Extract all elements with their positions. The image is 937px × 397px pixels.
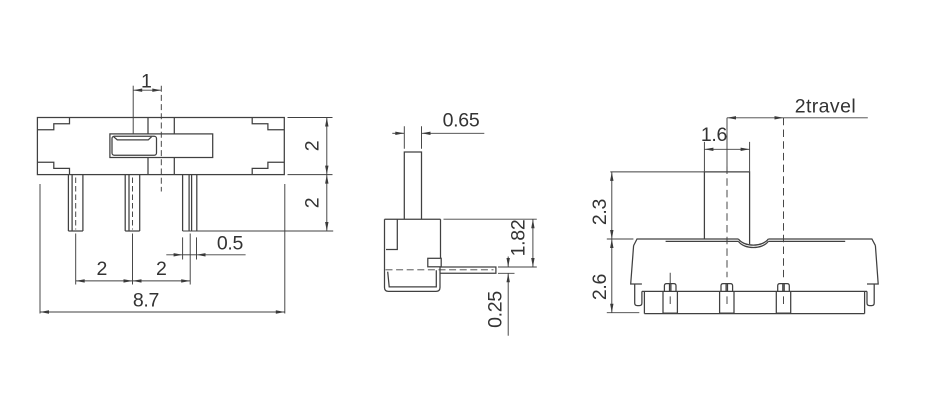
- svg-text:0.5: 0.5: [217, 233, 244, 255]
- svg-text:8.7: 8.7: [133, 290, 159, 312]
- svg-text:0.65: 0.65: [443, 109, 480, 131]
- dim 1 extension line: [132, 86, 134, 134]
- leg pitch extension lines: [76, 234, 191, 285]
- side centerline (dashed): [386, 269, 494, 271]
- top cover outer line left: [634, 239, 739, 246]
- cover dip lower arc: [738, 241, 768, 247]
- dim 0.5 arrows and line: [166, 254, 182, 256]
- side body outline: [385, 219, 441, 291]
- dim 2travel tail: [784, 117, 868, 119]
- svg-text:1: 1: [141, 71, 152, 93]
- leg 2 centerline: [132, 178, 134, 230]
- dim 0.65 extension lines: [404, 126, 421, 149]
- body right edge upper: [440, 219, 442, 258]
- terminal leg 1: [68, 175, 83, 231]
- tab 1 centerline marks: [669, 273, 671, 304]
- left ear: [635, 284, 642, 306]
- dim 2.6 line: [611, 239, 613, 313]
- dim 1.82 line: [532, 219, 534, 267]
- dim 1.82 extension top: [444, 218, 537, 220]
- dim 2.3 line: [611, 172, 613, 239]
- svg-text:0.25: 0.25: [485, 291, 507, 328]
- switch body outline: [37, 118, 284, 175]
- dim 1.82 extension pin top: [498, 266, 537, 268]
- dim 2.3/2.6 extension mid: [607, 238, 634, 240]
- terminal pin: [440, 267, 496, 273]
- left body side: [631, 246, 642, 284]
- cover dip upper arc: [738, 239, 768, 245]
- dim 2 (body height) line: [326, 118, 328, 175]
- svg-text:2: 2: [302, 198, 324, 209]
- dim 1 line: [133, 89, 161, 91]
- stem: [404, 152, 421, 219]
- dim 1.6 line: [704, 148, 749, 150]
- svg-text:2: 2: [97, 258, 108, 280]
- leg 1 centerline: [75, 178, 77, 230]
- dim 2 (leg length) line: [326, 175, 328, 231]
- svg-text:2.6: 2.6: [589, 274, 611, 300]
- svg-text:2: 2: [302, 141, 324, 152]
- corner step top-right: [252, 118, 284, 130]
- stem centerline solid upper: [726, 118, 728, 172]
- corner step bottom-left: [37, 162, 69, 174]
- dim 8.7 extension lines: [40, 184, 285, 314]
- cover edge line above window b: [173, 118, 175, 134]
- terminal leg 3: [183, 175, 197, 231]
- dim 1.6 extension lines: [704, 142, 749, 172]
- right body side: [867, 246, 878, 284]
- dim 0.5 extension lines: [183, 237, 197, 259]
- top cover inner line left: [666, 240, 739, 242]
- inner tray bottom: [388, 270, 437, 287]
- tab 1 body: [663, 291, 677, 313]
- dim 2 (pitch a) line: [76, 280, 133, 282]
- dim 2travel line: [727, 117, 784, 119]
- cover edge line below window a: [147, 158, 149, 175]
- travel centerline dash in tab 3: [783, 296, 785, 304]
- terminal exit block: [428, 258, 441, 267]
- dim 8.7 line: [40, 311, 285, 313]
- tab 3 body: [776, 291, 790, 313]
- slider window: [110, 134, 213, 158]
- svg-text:2: 2: [156, 258, 167, 280]
- dim 0.25 arrows: [507, 257, 509, 268]
- right side dim extension mid: [288, 174, 333, 176]
- svg-text:2travel: 2travel: [795, 96, 856, 118]
- dim 2.6 extension bottom: [607, 312, 640, 314]
- travel position centerline dashed: [783, 118, 785, 277]
- stem centerline dash in tab 2: [726, 296, 728, 304]
- dim 2 (pitch b) line: [133, 280, 191, 282]
- corner step top-left: [37, 118, 69, 130]
- svg-text:2.3: 2.3: [589, 199, 611, 225]
- inner step top-left: [386, 219, 397, 249]
- svg-text:1.82: 1.82: [508, 220, 530, 257]
- dim 2.3 extension top: [610, 171, 704, 173]
- leg 3 bottom line extended right: [183, 230, 334, 232]
- dim 0.25 extension pin bottom: [498, 272, 515, 274]
- terminal leg 2: [125, 175, 140, 231]
- stem: [704, 172, 749, 244]
- top cover inner line right: [768, 240, 845, 242]
- tab 2 head: [721, 284, 733, 292]
- knob cap outline: [112, 136, 157, 155]
- knob scoop groove: [114, 137, 152, 140]
- cover edge line below window b: [173, 158, 175, 175]
- right side dim extension top: [288, 117, 333, 119]
- svg-text:1.6: 1.6: [701, 124, 727, 146]
- cover edge line above window a: [147, 118, 149, 134]
- right ear: [867, 284, 874, 306]
- stem centerline dashed: [726, 167, 728, 278]
- tab 3 head: [778, 284, 790, 292]
- base block: [642, 291, 867, 313]
- dim 0.65 arrows: [392, 132, 404, 134]
- corner step bottom-right: [252, 162, 284, 174]
- tab 2 body: [720, 291, 734, 313]
- main centerline (dashed): [160, 86, 162, 192]
- top cover outer line right: [768, 239, 875, 246]
- tab 1 head: [664, 284, 676, 292]
